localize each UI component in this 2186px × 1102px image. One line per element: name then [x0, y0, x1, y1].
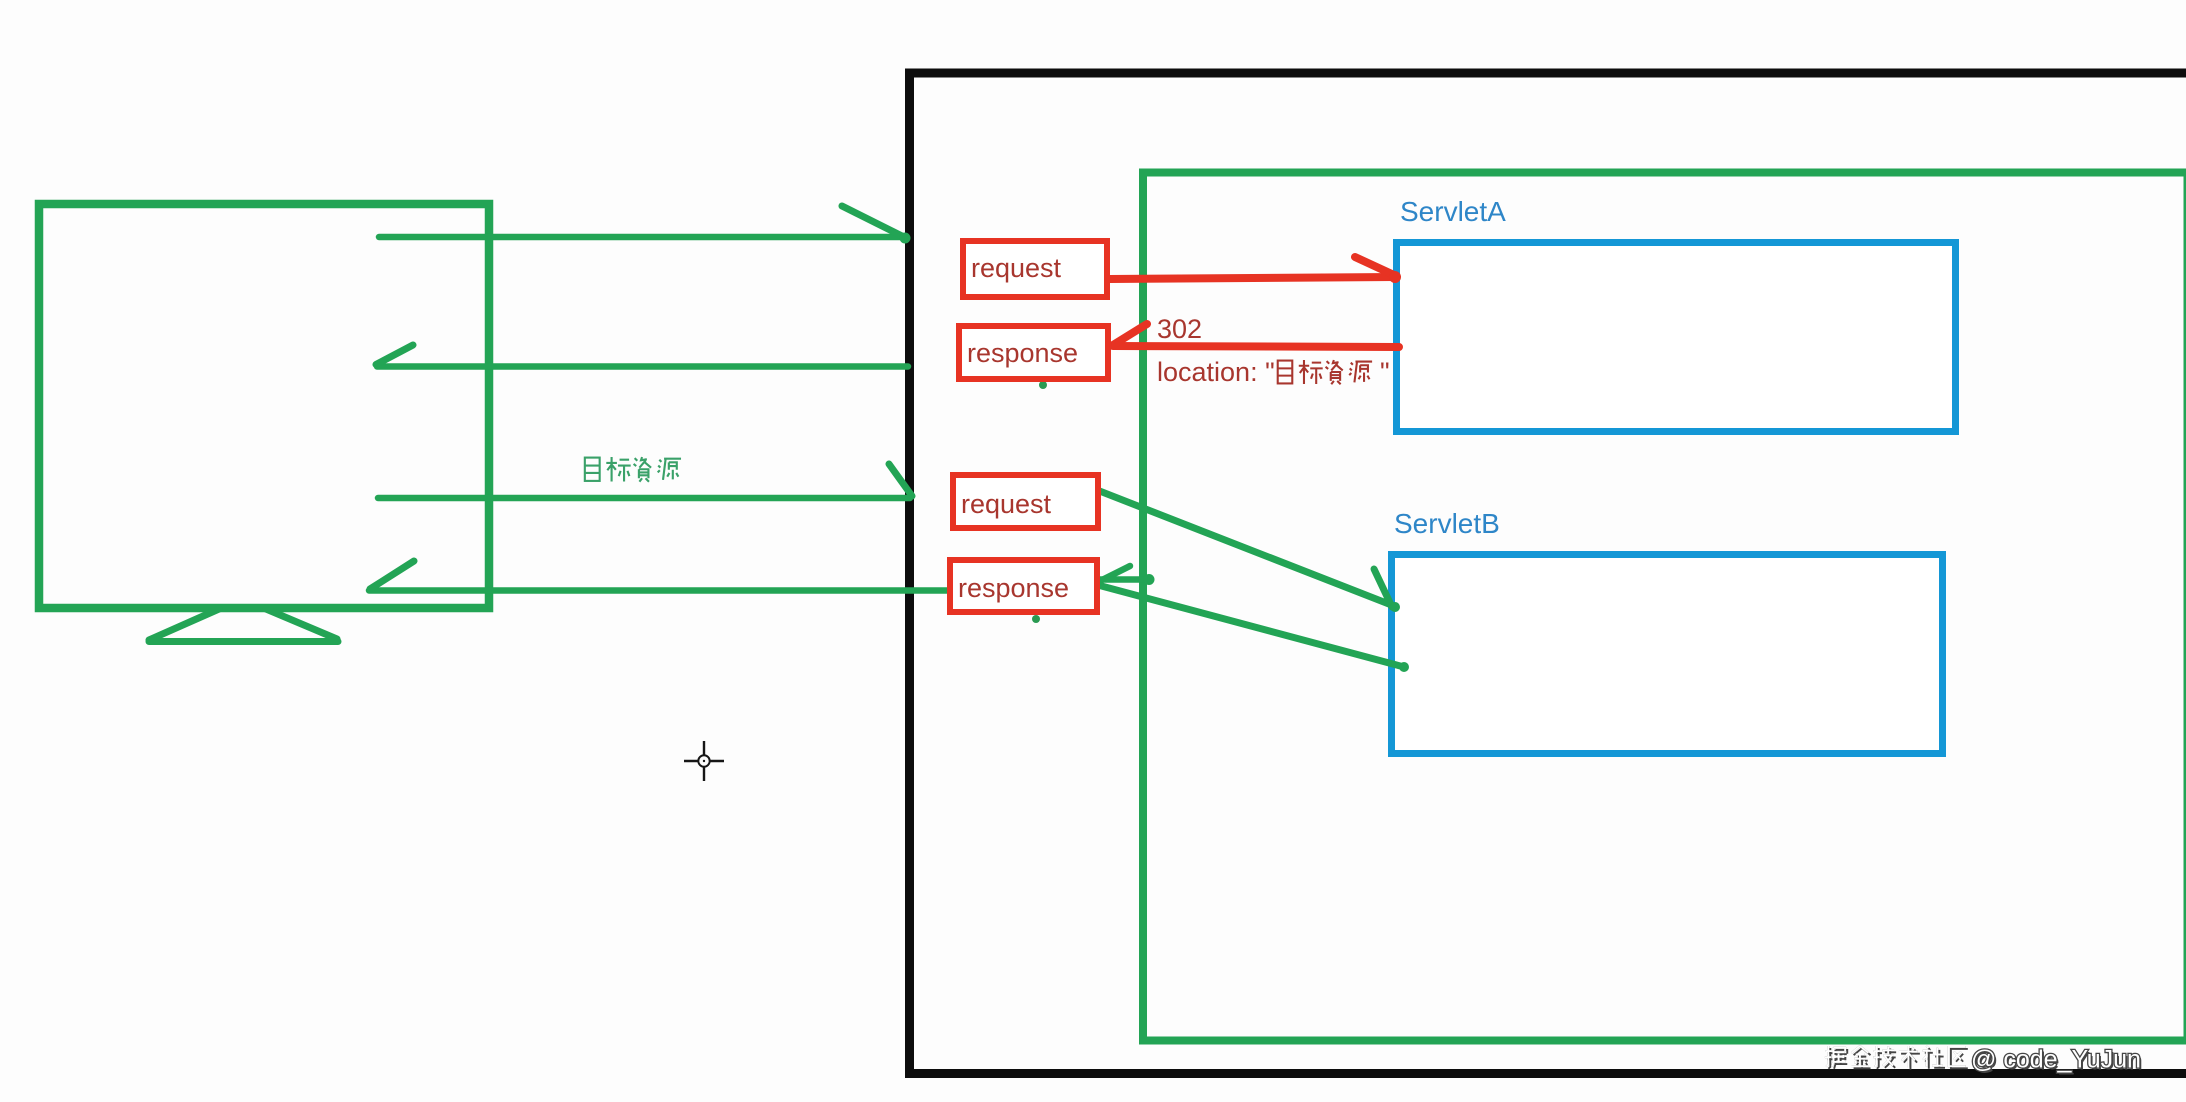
label 目标资源 (green, above line 3) — [585, 457, 681, 482]
svg-text:": " — [1380, 357, 1390, 387]
red arrow: request1 to ServletA — [1110, 277, 1395, 279]
wire: request line client to server (line 1) — [379, 234, 905, 241]
wire: second request line (line 3) — [378, 495, 910, 502]
arrowhead of line 3 — [889, 464, 912, 496]
crosshair cursor — [684, 741, 724, 781]
ServletB box — [1392, 555, 1943, 754]
svg-text:302: 302 — [1157, 314, 1202, 344]
request box 2 (red) — [953, 475, 1098, 528]
svg-text:response: response — [958, 573, 1069, 603]
client monitor stand (green triangle) — [149, 609, 338, 642]
response box 2 (red) — [950, 560, 1097, 612]
arrowhead barb at response2 — [1094, 566, 1130, 584]
wire: second response line (line 4) — [369, 587, 947, 594]
arrowhead of line 4 — [370, 561, 414, 589]
ServletA box — [1397, 243, 1956, 432]
client browser box (green) — [39, 204, 489, 608]
svg-text:request: request — [971, 253, 1062, 283]
arrowhead of line 1 — [842, 206, 906, 238]
green arrow: ServletB to response2 — [1094, 584, 1404, 667]
green stub arrow from container edge to response2 — [1094, 576, 1148, 583]
selection handle dot below response1 — [1039, 381, 1047, 389]
green arrow: request2 to ServletB — [1097, 490, 1394, 606]
request box 1 (red) — [963, 241, 1107, 297]
response box 1 (red) — [959, 326, 1108, 379]
svg-text:ServletB: ServletB — [1394, 508, 1500, 539]
svg-text:request: request — [961, 489, 1052, 519]
svg-text:response: response — [967, 338, 1078, 368]
server host box (black outer rectangle) — [910, 73, 2186, 1074]
svg-text:@ code_YuJun: @ code_YuJun — [1971, 1046, 2141, 1074]
svg-text:ServletA: ServletA — [1400, 196, 1506, 227]
arrowhead of line 2 — [376, 345, 413, 365]
watermark 掘金技术社区 @ code_YuJun — [1827, 1048, 1968, 1070]
wire: response line server to client (line 2) — [377, 363, 908, 370]
selection handle dot below response2 — [1032, 615, 1040, 623]
svg-text:location: ": location: " — [1157, 357, 1275, 387]
web container box (green inner rectangle) — [1143, 173, 2186, 1041]
red arrow: ServletA to response1 — [1113, 346, 1399, 347]
